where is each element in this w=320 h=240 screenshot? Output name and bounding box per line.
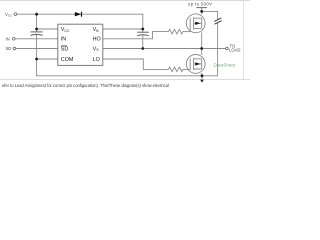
wire bus cap vertical: [217, 11, 219, 75]
junction dots: [35, 10, 203, 77]
svg-text:COM: COM: [61, 57, 74, 63]
terminal Vcc: [14, 13, 17, 16]
node HV supply T: [200, 10, 203, 13]
svg-text:SD: SD: [61, 46, 69, 52]
svg-text:IN: IN: [6, 36, 10, 41]
svg-text:IN: IN: [61, 37, 66, 43]
wire bootstrap leg VB: [142, 14, 144, 48]
node VS/switch junction: [200, 47, 203, 50]
wire Q1 source to VS: [201, 33, 203, 49]
svg-text:VCC: VCC: [61, 27, 70, 33]
node bootstrap/VS junction: [141, 47, 144, 50]
ground arrowhead: [200, 79, 204, 83]
IC pin labels: [61, 27, 101, 63]
svg-text:up to 500V: up to 500V: [188, 1, 212, 6]
resistor R2 (LO gate): [169, 67, 184, 72]
node COM pin branch: [35, 58, 38, 61]
svg-text:DataSheet: DataSheet: [214, 63, 236, 68]
ground stub arrow: [201, 76, 203, 79]
svg-text:SD: SD: [6, 46, 12, 51]
svg-text:VCC: VCC: [5, 12, 13, 18]
node VB junction: [141, 28, 144, 31]
svg-text:VS: VS: [93, 46, 100, 52]
capacitor C3 (HV bus, tilted): [214, 18, 221, 24]
wire HV supply drop: [201, 8, 203, 14]
wire HO pin with jog: [103, 32, 169, 39]
svg-text:VB: VB: [93, 27, 100, 33]
svg-text:efer to Lead Assignment for co: efer to Lead Assignment for correct pin …: [2, 83, 169, 88]
top border line: [0, 0, 250, 1]
diode D1: [75, 12, 82, 17]
faint table column line right: [242, 1, 245, 80]
transistor Q2 (low side MOSFET): [186, 55, 205, 74]
wire VS rail: [103, 48, 226, 50]
terminal TO LOAD: [226, 47, 229, 50]
IC U1 body: [58, 24, 103, 65]
supply rail bar: [196, 7, 207, 9]
wire LO pin with jog: [103, 59, 169, 69]
resistor R1 (HO gate): [169, 29, 184, 34]
wire Q2 source to bottom rail: [201, 73, 203, 75]
external labels: [5, 1, 240, 52]
wire LO gate lead: [184, 68, 190, 70]
wire left bus vertical (Vcc to COM): [36, 14, 38, 76]
wire bottom rail: [37, 75, 218, 77]
wire SD input: [16, 48, 58, 50]
capacitor C1 (Vcc decoupling): [31, 32, 43, 36]
node bottom rail junction: [201, 74, 204, 77]
Q1 body arrow: [195, 22, 200, 25]
capacitor C2 (bootstrap): [137, 32, 149, 36]
transistor Q1 (high side MOSFET): [186, 14, 205, 33]
terminal SD: [13, 47, 16, 50]
svg-text:LOAD: LOAD: [229, 48, 240, 53]
wire Q2 drain from VS: [201, 49, 203, 55]
wire Vcc top rail: [17, 13, 143, 15]
wire VB pin: [103, 28, 143, 30]
node Vcc/top-rail junction: [35, 13, 38, 16]
wire HV branch to bus cap: [202, 10, 218, 12]
terminal IN: [13, 38, 16, 41]
wire HO gate lead: [184, 31, 190, 33]
wire COM pin branch: [37, 58, 58, 60]
svg-text:HO: HO: [93, 37, 101, 43]
Q2 body arrow: [195, 62, 200, 65]
separator line: [0, 78, 250, 81]
wire VCC pin branch: [37, 28, 58, 30]
node VCC pin branch: [35, 28, 38, 31]
svg-text:LO: LO: [93, 57, 100, 63]
wire IN input: [15, 38, 58, 40]
